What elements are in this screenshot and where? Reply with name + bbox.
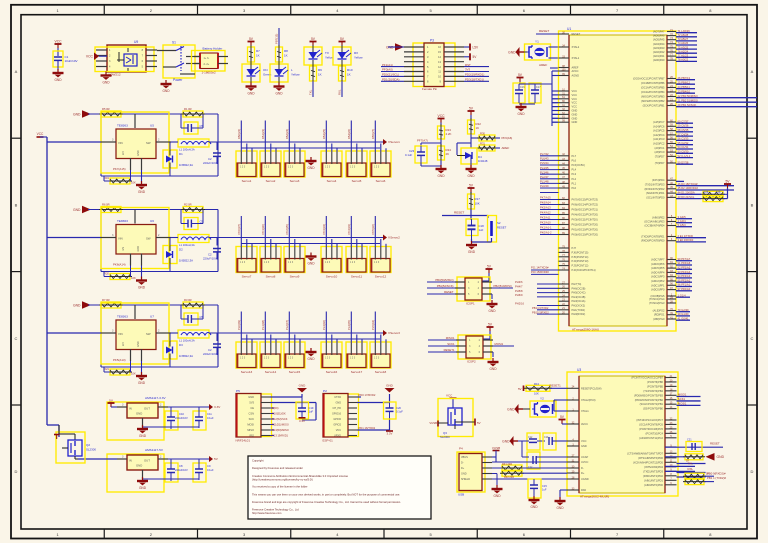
wire P3 nets — [381, 63, 489, 82]
svg-text:GND: GND — [162, 89, 170, 93]
svg-text:(XCK/AIN4/PCINT12)PD5: (XCK/AIN4/PCINT12)PD5 — [633, 460, 664, 464]
battery holder B1 — [192, 47, 229, 75]
connector P4 USB — [457, 447, 492, 497]
svg-text:PL2/47: PL2/47 — [540, 175, 549, 179]
capacitor C18 — [466, 219, 484, 239]
wire Q2 to AMS5V — [78, 458, 117, 460]
svg-text:GPIO16: GPIO16 — [332, 413, 342, 416]
ground reset — [466, 241, 477, 254]
capacitor C19 — [296, 397, 314, 419]
svg-text:1N5822,3A: 1N5822,3A — [179, 163, 193, 167]
svg-text:UTXD: UTXD — [334, 396, 341, 399]
svg-text:(OC2A/PCINT4)PB4: (OC2A/PCINT4)PB4 — [641, 90, 665, 94]
svg-text:96 PF1/A1: 96 PF1/A1 — [678, 283, 691, 287]
svg-text:PB1(52/SCK): PB1(52/SCK) — [437, 284, 454, 288]
U1 pins PH group — [515, 280, 586, 316]
servo connector Servo13 — [236, 320, 257, 374]
svg-text:(SS/PCINT0)PB0: (SS/PCINT0)PB0 — [643, 407, 664, 411]
svg-text:PH5/8: PH5/8 — [515, 289, 523, 293]
svg-text:(ADC4)PF4: (ADC4)PF4 — [651, 270, 665, 274]
U1 pins PG group — [649, 296, 690, 321]
svg-text:PB14 6/TXD2: PB14 6/TXD2 — [532, 306, 549, 310]
svg-text:PF1(A1): PF1(A1) — [382, 63, 393, 67]
svg-text:0.1uF: 0.1uF — [207, 416, 214, 420]
svg-text:3.3V: 3.3V — [214, 405, 221, 409]
svg-text:(AIN0)PE2: (AIN0)PE2 — [652, 216, 665, 220]
svg-text:VCC: VCC — [438, 114, 446, 118]
net label RESET U1 — [536, 29, 558, 34]
ground servo bank U7 — [306, 348, 317, 361]
svg-text:SCK1: SCK1 — [447, 342, 455, 346]
svg-text:AREF: AREF — [502, 146, 510, 150]
svg-text:PL5/44: PL5/44 — [540, 161, 549, 165]
resistor R30 — [477, 132, 512, 141]
svg-text:GND: GND — [572, 116, 578, 120]
resistor R16 — [683, 476, 726, 484]
svg-text:R12(52)/SCK: R12(52)/SCK — [272, 417, 288, 421]
svg-text:(A14)PC6: (A14)PC6 — [653, 124, 665, 128]
svg-text:92 PF5/A5: 92 PF5/A5 — [678, 266, 691, 270]
svg-text:CH_PD: CH_PD — [333, 407, 342, 410]
svg-text:PK5(A13): PK5(A13) — [113, 358, 126, 362]
svg-text:PK3(ADC11/PCINT20): PK3(ADC11/PCINT20) — [572, 218, 598, 222]
svg-text:PH4/7: PH4/7 — [515, 285, 523, 289]
svg-text:(WR)PG0: (WR)PG0 — [653, 317, 665, 321]
wire shield — [492, 478, 567, 480]
LED TX — [304, 45, 334, 67]
svg-text:PH1(TXD2): PH1(TXD2) — [572, 308, 586, 312]
svg-text:GND: GND — [530, 505, 538, 509]
svg-text:Servo2: Servo2 — [266, 179, 276, 183]
svg-text:RESET1: RESET1 — [550, 383, 562, 387]
svg-text:(A10)PC2: (A10)PC2 — [653, 142, 665, 146]
svg-text:1+ 3-: 1+ 3- — [204, 57, 210, 60]
svg-text:GND: GND — [136, 412, 142, 416]
svg-text:1uF: 1uF — [309, 410, 314, 414]
ground for C1 — [53, 69, 64, 82]
svg-text:GND: GND — [493, 494, 501, 498]
power port 5V AVCC — [559, 415, 568, 424]
power port GND bank U5 — [73, 110, 91, 118]
svg-text:(SCLK/PCINT1)PB1: (SCLK/PCINT1)PB1 — [640, 402, 664, 406]
wire reset node — [442, 209, 488, 220]
svg-text:PB2(51/MOSI): PB2(51/MOSI) — [494, 284, 512, 288]
inductor L U7 — [171, 330, 236, 343]
svg-text:(PDI/MOSI/PCINT2)PB2: (PDI/MOSI/PCINT2)PB2 — [635, 398, 664, 402]
svg-text:5V3: 5V3 — [249, 401, 254, 405]
svg-text:0.1uF: 0.1uF — [207, 468, 214, 472]
svg-text:R10: R10 — [347, 68, 353, 72]
svg-text:1 2 3: 1 2 3 — [325, 262, 331, 264]
wire bank main U7 — [47, 332, 384, 334]
svg-text:VUSB: VUSB — [429, 421, 437, 425]
svg-text:MISO1: MISO1 — [678, 393, 687, 397]
svg-text:Servo10: Servo10 — [326, 275, 338, 279]
svg-text:PC5(32): PC5(32) — [371, 224, 375, 234]
power port VCC divider — [438, 114, 446, 126]
svg-text:(AD0)PA0: (AD0)PA0 — [653, 58, 665, 62]
svg-text:71 LA5/26: 71 LA5/26 — [678, 29, 691, 33]
svg-text:PL7/42: PL7/42 — [540, 152, 549, 156]
svg-text:3 G4/5: 3 G4/5 — [678, 215, 687, 219]
svg-text:72 A6/28: 72 A6/28 — [678, 33, 689, 37]
svg-text:1K: 1K — [347, 73, 351, 77]
svg-text:220uF/16V: 220uF/16V — [175, 416, 188, 420]
power port GND bank U7 — [73, 301, 91, 309]
power port 5V for TX LED — [310, 37, 317, 46]
svg-text:PH0(RXD2): PH0(RXD2) — [572, 312, 586, 316]
svg-text:GND: GND — [556, 506, 564, 510]
LED L1 — [270, 62, 300, 84]
svg-text:GND: GND — [137, 341, 140, 347]
svg-text:PK7(ADC15/PCINT23): PK7(ADC15/PCINT23) — [572, 198, 599, 202]
capacitor C9 — [193, 459, 214, 482]
svg-text:TX: TX — [325, 51, 329, 55]
svg-text:10K: 10K — [716, 190, 721, 194]
svg-text:(ADC6)PF6: (ADC6)PF6 — [651, 262, 665, 266]
wire P5 5v3 — [270, 403, 316, 421]
svg-text:PL1: PL1 — [572, 181, 577, 185]
svg-text:PB0 9(RXD2)#: PB0 9(RXD2)# — [707, 471, 726, 475]
svg-text:3.3V: 3.3V — [387, 432, 393, 436]
wire servo Servo11 — [351, 216, 362, 248]
svg-text:Servo18: Servo18 — [375, 370, 387, 374]
svg-text:C: C — [751, 336, 754, 341]
power port VCC main bus — [37, 132, 45, 137]
transistor Q3 — [429, 394, 480, 439]
resistor R9 — [310, 64, 323, 83]
svg-text:1 2 3: 1 2 3 — [264, 358, 270, 360]
svg-text:59 C6/36: 59 C6/36 — [678, 124, 689, 128]
power port GND Y2 — [507, 404, 530, 414]
svg-text:PL4/45: PL4/45 — [540, 166, 549, 170]
svg-text:C: C — [15, 336, 18, 341]
servo connector Servo16 — [321, 320, 342, 374]
svg-text:XTAL2: XTAL2 — [572, 45, 580, 49]
svg-text:Servo8: Servo8 — [266, 275, 276, 279]
resistor R1 — [181, 107, 205, 117]
wire servo Servo9 — [289, 216, 300, 248]
svg-text:GND: GND — [508, 50, 516, 54]
svg-text:GND: GND — [717, 455, 725, 459]
svg-text:(AD2)PA2: (AD2)PA2 — [653, 50, 665, 54]
svg-text:PH3(OC4A): PH3(OC4A) — [572, 299, 586, 303]
svg-text:Servo6: Servo6 — [376, 179, 386, 183]
svg-text:R13: R13 — [534, 382, 539, 386]
wire servo Servo5 — [351, 121, 362, 153]
svg-text:(RXD0/PCINT8)PE0: (RXD0/PCINT8)PE0 — [641, 239, 665, 243]
svg-text:220uF/10V: 220uF/10V — [203, 161, 217, 165]
svg-text:(SCL/INT0)PD0: (SCL/INT0)PD0 — [646, 195, 665, 199]
regulator AMS1117-5V — [107, 448, 168, 492]
power port GND bank U6 — [73, 206, 91, 214]
svg-text:76 A2/24: 76 A2/24 — [678, 49, 689, 53]
wire bank top U7 — [88, 305, 218, 367]
svg-text:PL1(48): PL1(48) — [261, 320, 265, 330]
svg-text:Creative Commons Attribution-N: Creative Commons Attribution-NonCommerci… — [252, 474, 349, 478]
power port 5V for RX LED — [339, 37, 346, 46]
svg-text:10uF/10V: 10uF/10V — [65, 59, 78, 63]
svg-text:GND: GND — [468, 250, 476, 254]
svg-text:TXL: TXL — [688, 462, 694, 466]
capacitor C23 — [405, 146, 427, 163]
svg-text:Servo12: Servo12 — [375, 275, 387, 279]
svg-text:PJ7: PJ7 — [572, 246, 577, 250]
svg-text:AREF: AREF — [572, 66, 579, 70]
pushbutton S2 — [488, 216, 507, 243]
svg-text:(RD)PG1: (RD)PG1 — [654, 313, 665, 317]
opto-isolator U9 — [95, 40, 157, 77]
svg-text:VServo3: VServo3 — [388, 331, 400, 335]
svg-text:(AD4)PA4: (AD4)PA4 — [653, 42, 665, 46]
svg-text:S2: S2 — [497, 221, 501, 225]
svg-text:U5: U5 — [150, 124, 154, 128]
servo connector Servo3 — [284, 129, 305, 183]
svg-text:You received a copy of the lic: You received a copy of the license in th… — [252, 485, 308, 489]
svg-text:VCC: VCC — [581, 439, 587, 443]
svg-text:(A9)PC1: (A9)PC1 — [655, 146, 666, 150]
resistor R6 — [99, 203, 123, 213]
svg-text:GND: GND — [572, 109, 578, 113]
wire servo Servo10 — [326, 216, 337, 248]
svg-text:(T0)PD7: (T0)PD7 — [655, 154, 665, 158]
svg-text:Servo9: Servo9 — [290, 275, 300, 279]
svg-text:21 PB2 51/MOSI: 21 PB2 51/MOSI — [678, 98, 698, 102]
U1 pins PB group — [633, 76, 757, 108]
wire bank top U6 — [88, 210, 218, 272]
wire bank top U5 — [88, 114, 218, 176]
svg-text:Servo1: Servo1 — [242, 179, 252, 183]
svg-text:GND: GND — [73, 112, 81, 116]
svg-text:91 PF6/A6: 91 PF6/A6 — [678, 261, 691, 265]
svg-text:GND: GND — [307, 357, 315, 361]
resistor R7 — [99, 298, 123, 308]
svg-text:4.2K: 4.2K — [446, 132, 452, 136]
svg-text:GND: GND — [517, 112, 525, 116]
resistor R17 — [468, 192, 481, 211]
svg-text:UVCC: UVCC — [581, 460, 588, 464]
servo connector Servo6 — [370, 129, 391, 183]
svg-text:PB15 5/RXD2: PB15 5/RXD2 — [532, 310, 549, 314]
U1 pins PD group — [644, 178, 734, 200]
svg-text:(PCINT7/OC0A/OC1C)PB7: (PCINT7/OC0A/OC1C)PB7 — [631, 376, 663, 380]
svg-text:(INT4/ICP1/CLKO)PC7: (INT4/ICP1/CLKO)PC7 — [636, 418, 663, 422]
svg-text:1 2 3: 1 2 3 — [325, 167, 331, 169]
svg-text:PD2(19/RXD1): PD2(19/RXD1) — [465, 73, 484, 77]
regulator U5 — [101, 112, 171, 173]
svg-text:C9: C9 — [207, 464, 211, 468]
capacitor C11 — [193, 407, 214, 430]
servo connector Servo11 — [346, 224, 367, 278]
wire servo Servo15 — [289, 312, 300, 344]
svg-text:TE8363: TE8363 — [117, 219, 128, 223]
svg-text:39 G1/40: 39 G1/40 — [678, 312, 690, 316]
U3 pins left — [567, 386, 602, 492]
svg-text:D: D — [15, 469, 18, 474]
svg-text:1uF: 1uF — [479, 228, 484, 232]
svg-text:PL3(46): PL3(46) — [322, 320, 326, 330]
U1 pins PF group — [651, 257, 692, 292]
svg-text:PD0(21/SCL): PD0(21/SCL) — [382, 73, 399, 77]
svg-text:Servo17: Servo17 — [351, 370, 363, 374]
svg-text:C17: C17 — [536, 86, 541, 89]
wire servo Servo1 — [241, 121, 252, 153]
ground servo bank U5 — [306, 157, 317, 170]
svg-text:(MOSI/PCINT2)PB2: (MOSI/PCINT2)PB2 — [641, 99, 665, 103]
svg-text:R6 0R: R6 0R — [102, 203, 110, 207]
svg-text:PK0(ADC10/PCINT20): PK0(ADC10/PCINT20) — [572, 233, 599, 237]
svg-text:A: A — [15, 69, 18, 74]
svg-text:XTAL1: XTAL1 — [581, 409, 589, 413]
svg-text:VCC: VCC — [572, 93, 578, 97]
svg-text:S1: S1 — [172, 41, 176, 45]
resistor R13 — [524, 382, 552, 396]
svg-text:RESET(PC1/DW): RESET(PC1/DW) — [581, 386, 602, 390]
inductor L U5 — [171, 139, 236, 152]
capacitor C6b — [203, 238, 221, 261]
svg-text:(AIN1/INT1)PD1: (AIN1/INT1)PD1 — [644, 478, 663, 482]
svg-text:5 G5/3: 5 G5/3 — [678, 223, 687, 227]
wire AMS1117-5V gnd — [143, 479, 200, 481]
svg-text:GND: GND — [136, 464, 142, 468]
power port 5V decoupling — [517, 73, 524, 84]
svg-text:(OC1B/PCINT6)PB6: (OC1B/PCINT6)PB6 — [641, 81, 665, 85]
svg-text:URXD: URXD — [334, 435, 341, 438]
power port 5V R13 — [518, 386, 524, 392]
wire PAD gnd — [560, 490, 567, 499]
svg-text:10K: 10K — [131, 181, 136, 185]
capacitor C5b — [203, 142, 221, 165]
svg-text:CSN: CSN — [249, 412, 255, 416]
svg-text:PB7(13): PB7(13) — [275, 34, 279, 44]
svg-text:1 G1/4: 1 G1/4 — [678, 293, 687, 297]
svg-text:1 2 3: 1 2 3 — [374, 358, 380, 360]
resistor R19 — [104, 170, 136, 185]
svg-text:VCC: VCC — [572, 105, 578, 109]
svg-text:C20: C20 — [396, 406, 401, 410]
svg-text:RZ1 22R: RZ1 22R — [502, 463, 512, 466]
svg-text:1N5822,3A: 1N5822,3A — [179, 354, 193, 358]
svg-text:VCC: VCC — [446, 394, 453, 398]
net label AREF U1 — [539, 63, 558, 68]
svg-text:RXL: RXL — [688, 467, 694, 471]
svg-text:PD0 17/RXD2: PD0 17/RXD2 — [359, 393, 376, 397]
svg-text:ATmega16U2-MU(R): ATmega16U2-MU(R) — [580, 495, 609, 499]
svg-text:MISO: MISO — [247, 428, 254, 432]
svg-text:XTAL2(PC0): XTAL2(PC0) — [581, 398, 596, 402]
svg-text:C11: C11 — [207, 412, 212, 416]
svg-text:PJ6(PCINT15): PJ6(PCINT15) — [572, 250, 589, 254]
svg-text:http://www.freenove.com: http://www.freenove.com — [252, 511, 282, 515]
svg-text:PF6(A6): PF6(A6) — [502, 136, 513, 140]
svg-text:EN: EN — [122, 247, 125, 251]
svg-text:A: A — [751, 69, 754, 74]
svg-text:(PD0/MISO/PCINT3)PB3: (PD0/MISO/PCINT3)PB3 — [634, 393, 664, 397]
svg-text:R20: R20 — [104, 272, 109, 276]
svg-text:AMS1117-3.3V: AMS1117-3.3V — [145, 396, 166, 400]
svg-text:PH2(XCK2): PH2(XCK2) — [572, 304, 586, 308]
U3 pins PB group — [631, 375, 700, 411]
svg-text:(AIN0/INT0)PD0: (AIN0/INT0)PD0 — [644, 483, 663, 487]
svg-text:PA2(24): PA2(24) — [285, 129, 289, 139]
svg-text:PA0(22): PA0(22) — [237, 129, 241, 139]
header P3 — [404, 39, 464, 92]
svg-text:SW: SW — [146, 237, 151, 241]
ground C15 — [529, 496, 540, 509]
svg-text:R8: R8 — [284, 49, 288, 53]
wire TXL — [309, 81, 314, 97]
svg-text:1K: 1K — [284, 54, 288, 58]
svg-text:10K: 10K — [534, 392, 539, 396]
svg-text:PJ4(PCINT13): PJ4(PCINT13) — [572, 259, 589, 263]
svg-text:PH5(OC4C): PH5(OC4C) — [572, 291, 586, 295]
wire Y2 to U3 — [554, 400, 567, 411]
svg-text:3 E0 0/RXD0: 3 E0 0/RXD0 — [678, 238, 694, 242]
svg-text:C14: C14 — [544, 436, 549, 439]
wire servo Servo8 — [265, 216, 276, 248]
svg-text:R31: R31 — [480, 142, 485, 146]
svg-text:50 D7/38: 50 D7/38 — [678, 160, 689, 164]
regulator U7 — [101, 303, 171, 364]
svg-text:SCK1: SCK1 — [678, 397, 686, 401]
wire divider tap — [421, 139, 441, 146]
svg-text:PA5(27): PA5(27) — [371, 129, 375, 139]
svg-text:USB: USB — [458, 493, 464, 497]
svg-text:(PCINT10)PC4: (PCINT10)PC4 — [646, 431, 664, 435]
svg-text:Battery Holder: Battery Holder — [203, 47, 223, 51]
svg-text:VCC: VCC — [86, 55, 94, 59]
svg-text:Yellow: Yellow — [291, 73, 300, 77]
net label P2 rx — [357, 393, 376, 397]
svg-text:MOSI1: MOSI1 — [678, 402, 687, 406]
svg-text:PH3/6: PH3/6 — [515, 280, 523, 284]
net label RESET1 — [550, 383, 568, 388]
svg-text:IN: IN — [129, 407, 132, 411]
svg-text:PK4(ADC12/PCINT20): PK4(ADC12/PCINT20) — [572, 213, 599, 217]
svg-text:OUT: OUT — [144, 407, 150, 411]
ground for D4 — [466, 165, 477, 178]
svg-text:Q2: Q2 — [86, 443, 90, 447]
svg-text:220uF/16V: 220uF/16V — [175, 468, 188, 472]
svg-text:R7: R7 — [256, 49, 260, 53]
svg-text:ICSP1: ICSP1 — [466, 302, 475, 306]
svg-text:PL2(47): PL2(47) — [285, 320, 289, 330]
svg-text:VIN: VIN — [118, 237, 123, 241]
svg-text:TE8363: TE8363 — [117, 315, 128, 319]
svg-text:(ADC0)PF0: (ADC0)PF0 — [651, 288, 665, 292]
svg-text:1 2 3: 1 2 3 — [264, 167, 270, 169]
servo connector Servo14 — [260, 320, 281, 374]
svg-text:R5 0R: R5 0R — [102, 107, 110, 111]
svg-text:U7: U7 — [150, 315, 154, 319]
svg-text:VServo2: VServo2 — [388, 236, 400, 240]
wire servo Servo7 — [241, 216, 252, 248]
svg-text:(A11)PC3: (A11)PC3 — [653, 137, 665, 141]
svg-text:Servo15: Servo15 — [289, 370, 301, 374]
svg-text:VCC: VCC — [572, 89, 578, 93]
svg-text:(ICP4)PD4: (ICP4)PD4 — [652, 178, 665, 182]
wire cap branch U6 — [181, 210, 203, 224]
svg-text:PC2(35): PC2(35) — [285, 224, 289, 234]
capacitor C15 — [528, 479, 547, 498]
svg-text:(SDA/INT1)PD1: (SDA/INT1)PD1 — [646, 191, 665, 195]
svg-text:(ADC3)PF3: (ADC3)PF3 — [651, 275, 665, 279]
power port L5V — [464, 44, 479, 51]
svg-text:GND: GND — [489, 367, 497, 371]
servo connector Servo17 — [346, 320, 367, 374]
svg-text:(http://creativecommons.org/li: (http://creativecommons.org/licenses/by-… — [252, 478, 313, 482]
resistor R20 — [104, 266, 136, 281]
